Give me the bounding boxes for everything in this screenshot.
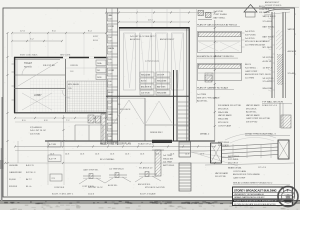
svg-text:1x4 TRIM: 1x4 TRIM [245,78,254,80]
svg-text:W8x24 BM: W8x24 BM [263,88,273,90]
svg-text:5/8 GYP: 5/8 GYP [157,75,165,77]
svg-text:ANCHOR BOL: ANCHOR BOL [138,183,151,186]
svg-text:14'-8: 14'-8 [110,154,114,156]
svg-text:VAPOR BARR: VAPOR BARR [246,104,260,107]
svg-text:14'-8: 14'-8 [125,154,129,156]
svg-text:ANCHOR BOLT MTL DECK: ANCHOR BOLT MTL DECK [245,73,271,76]
svg-text:BATT INSUL: BATT INSUL [163,164,175,167]
svg-text:R-19 INSUL: R-19 INSUL [245,67,257,69]
svg-text:LOBBY: LOBBY [34,95,42,97]
svg-text:1/2 EXP: 1/2 EXP [263,41,271,43]
svg-text:B-4 TYP: B-4 TYP [49,158,57,160]
svg-text:MTL DECK 2x6 STUD: MTL DECK 2x6 STUD [145,187,165,189]
svg-text:HALL: HALL [108,113,114,116]
svg-text:ALUM SILL: ALUM SILL [197,100,208,103]
svg-text:ANCHOR: ANCHOR [288,50,297,53]
svg-text:W8x24 BM: W8x24 BM [218,119,228,121]
svg-text:201: 201 [97,70,100,72]
svg-text:1/2"=1'-0: 1/2"=1'-0 [258,167,267,169]
svg-text:SEE AD JOINING SHEET FOR ADD N: SEE AD JOINING SHEET FOR ADD NO 2 [233,182,273,185]
svg-text:VAPOR BARR: VAPOR BARR [215,172,229,175]
svg-text:2x10 JST 16 OC: 2x10 JST 16 OC [88,187,103,189]
svg-text:ANCHOR BOLT FIN GRADE: ANCHOR BOLT FIN GRADE [233,173,260,176]
svg-text:A-7 SIM: A-7 SIM [49,143,56,146]
svg-text:2 X: 2 X [52,178,56,180]
svg-text:CANT STRIP MTL: CANT STRIP MTL [83,169,98,172]
svg-text:ALUM SILL: ALUM SILL [108,184,118,187]
svg-text:ALUM SILL: ALUM SILL [246,111,257,114]
svg-text:BATT INSUL: BATT INSUL [214,16,227,19]
svg-text:10x8: 10x8 [108,19,112,21]
svg-text:2x6 STUD: 2x6 STUD [245,38,255,40]
svg-text:2x6 STUD: 2x6 STUD [141,93,150,95]
svg-text:A B C D: A B C D [26,164,34,167]
svg-text:W8x24 BM: W8x24 BM [218,112,228,114]
svg-text:BLK'G: BLK'G [141,81,147,83]
svg-text:5/8 GYP BD: 5/8 GYP BD [263,78,274,80]
svg-text:5/8 GYP BD: 5/8 GYP BD [263,57,274,59]
svg-text:10x8: 10x8 [108,41,112,43]
svg-text:MTL DECK: MTL DECK [263,47,274,49]
svg-text:SCALE 3/4"=1'-0: SCALE 3/4"=1'-0 [262,104,278,107]
svg-text:RM 104: RM 104 [24,67,32,69]
svg-text:GRAND RAPIDS MICH JOB 412: GRAND RAPIDS MICH JOB 412 [234,196,265,199]
svg-text:10x8: 10x8 [108,52,112,54]
svg-text:LEGEND: LEGEND [9,165,18,167]
svg-text:VAPOR BARR: VAPOR BARR [246,114,260,117]
svg-text:CORR: CORR [108,70,114,72]
svg-text:12'-6: 12'-6 [20,31,26,33]
svg-text:BATT INS: BATT INS [157,86,166,89]
svg-text:B.P. N.I.C.: B.P. N.I.C. [26,172,36,174]
svg-text:1x4 TRIM: 1x4 TRIM [197,94,206,96]
svg-text:30,000: 30,000 [9,179,16,181]
svg-text:STL ANGL: STL ANGL [263,80,273,83]
svg-text:VAPOR BARR: VAPOR BARR [263,15,277,18]
svg-text:4: 4 [295,54,296,56]
svg-text:NEW CURB: NEW CURB [60,55,71,57]
svg-text:2x10 JST 16 OC SEE DET 7: 2x10 JST 16 OC SEE DET 7 [130,36,156,38]
svg-text:MTL DECK: MTL DECK [246,108,257,110]
svg-text:DETAIL 2: DETAIL 2 [200,133,210,136]
svg-text:DRESS RM 2: DRESS RM 2 [150,132,164,134]
svg-text:202B: 202B [97,77,102,79]
svg-text:VAPOR: VAPOR [288,28,295,31]
svg-text:MEZZANINE FLOOR PLAN: MEZZANINE FLOOR PLAN [100,142,131,145]
svg-text:14'-8: 14'-8 [80,154,84,156]
svg-text:10x8: 10x8 [108,74,112,76]
svg-text:PLAN OF OAK DOOR BUCK AT RM 10: PLAN OF OAK DOOR BUCK AT RM 104 [197,24,238,27]
svg-text:BEAM DETAIL: BEAM DETAIL [228,167,242,170]
svg-text:B.U.H. / T.M.S. DET 1: B.U.H. / T.M.S. DET 1 [52,194,74,196]
svg-text:10x8: 10x8 [108,85,112,87]
svg-text:1x4 TRIM: 1x4 TRIM [163,162,172,164]
svg-text:MECH: MECH [108,48,114,50]
svg-text:CONT FLASH: CONT FLASH [233,170,247,173]
svg-text:CONC BLK: CONC BLK [54,187,65,189]
svg-text:TOILET: TOILET [24,63,33,65]
svg-text:BLDG: BLDG [93,40,99,42]
svg-text:3/4 PLYWD: 3/4 PLYWD [245,34,256,36]
svg-text:VAPOR BARR: VAPOR BARR [218,114,232,117]
svg-text:STL ANGL: STL ANGL [263,20,273,23]
svg-text:W8x24 BM: W8x24 BM [163,158,173,160]
svg-text:ANCHOR B: ANCHOR B [141,86,152,89]
svg-text:1/2 EXP JT BLK'G: 1/2 EXP JT BLK'G [265,5,282,7]
svg-text:EXIST: EXIST [93,36,99,38]
svg-text:BATT INSUL: BATT INSUL [218,141,230,144]
svg-text:W8x24 BM: W8x24 BM [157,81,167,83]
svg-text:FIN FLR: FIN FLR [9,186,18,188]
svg-text:5/8 GYP BD: 5/8 GYP BD [43,65,55,67]
svg-text:ALT 2: ALT 2 [26,178,32,181]
svg-text:BATT INSUL: BATT INSUL [228,155,240,158]
svg-text:BLK'G: BLK'G [245,64,251,66]
svg-text:MTL DECK: MTL DECK [68,84,80,86]
svg-text:STOR: STOR [108,26,114,28]
svg-text:ALUM SIL: ALUM SIL [263,60,273,63]
svg-text:86'-4 OVERALL: 86'-4 OVERALL [100,158,116,161]
svg-text:MTL DECK: MTL DECK [218,122,229,124]
svg-text:FIN GRADE 5/8 GYP BD: FIN GRADE 5/8 GYP BD [218,104,242,107]
svg-text:W8x24 BM: W8x24 BM [141,75,151,77]
svg-text:4: 4 [295,14,296,16]
svg-text:SEE DET 7 FIN GRADE: SEE DET 7 FIN GRADE [197,96,220,99]
svg-text:CANT STRIP: CANT STRIP [233,176,246,179]
svg-text:14'-8: 14'-8 [50,154,54,156]
svg-text:ELEC: ELEC [108,92,114,94]
svg-text:BATT INSUL: BATT INSUL [263,25,275,28]
svg-text:14'-8: 14'-8 [65,154,69,156]
svg-text:FIN GRADE: FIN GRADE [218,144,230,147]
svg-text:1x4 TRIM: 1x4 TRIM [163,155,172,157]
svg-text:1/2 EXP JT: 1/2 EXP JT [263,68,274,70]
svg-text:2x6 STUD: 2x6 STUD [30,133,41,135]
svg-text:R-19 INSUL: R-19 INSUL [228,159,240,161]
svg-text:DR TMS CH DJH DATE 10-4-66: DR TMS CH DJH DATE 10-4-66 SCALE AS NOTE… [234,203,276,206]
svg-text:BATT INSUL: BATT INSUL [263,36,275,39]
svg-text:CANT STRIP 5/8 GYP BD: CANT STRIP 5/8 GYP BD [246,117,271,120]
svg-text:2x6 STUD: 2x6 STUD [245,31,255,33]
svg-text:PRAIRIE FORGE ARCHITECTS ENGIN: PRAIRIE FORGE ARCHITECTS ENGINEERS DET M… [234,200,283,203]
svg-text:W8x24 BM: W8x24 BM [157,93,167,95]
svg-text:MTL DECK: MTL DECK [228,162,239,164]
svg-text:STL ANGLE 1/2: STL ANGLE 1/2 [139,167,152,170]
svg-text:1x4 TRIM W8x24: 1x4 TRIM W8x24 [109,169,124,171]
svg-text:10.0.5: 10.0.5 [88,194,95,196]
svg-text:JAN: JAN [108,14,112,17]
svg-text:200A: 200A [97,62,102,65]
svg-text:EL 4+: EL 4+ [26,186,32,188]
svg-text:STL ANGLE: STL ANGLE [30,126,42,129]
svg-text:14'-8: 14'-8 [140,154,144,156]
svg-text:STOREY BROADCAST BUILDING: STOREY BROADCAST BUILDING [234,188,277,192]
svg-text:CONT FLASH: CONT FLASH [218,124,232,127]
svg-text:2x10 JST 16 OC: 2x10 JST 16 OC [30,130,47,132]
svg-text:ELEVATION OF CABINET IN RM 110: ELEVATION OF CABINET IN RM 110 [197,55,234,58]
svg-text:UNIVERSITY OF MICHIGAN 66: UNIVERSITY OF MICHIGAN 66 [234,193,265,196]
svg-text:5/8 GYP BD: 5/8 GYP BD [246,122,258,124]
svg-text:14'-8: 14'-8 [185,154,189,156]
svg-text:B.U.P. 4 SCALE: B.U.P. 4 SCALE [140,193,156,196]
svg-text:PLAN OF CABINET NO SCALE: PLAN OF CABINET NO SCALE [197,86,229,89]
svg-text:4: 4 [295,34,296,36]
svg-text:5/8 GYP BD: 5/8 GYP BD [215,176,226,178]
svg-text:OFFICE: OFFICE [70,65,79,67]
svg-text:24'-0: 24'-0 [148,20,154,22]
svg-text:CASEWORK: CASEWORK [9,171,22,174]
svg-text:SCALE 1/8"=1'-0: SCALE 1/8"=1'-0 [138,142,154,145]
svg-text:10x8: 10x8 [108,30,112,32]
svg-text:2x6 STUD: 2x6 STUD [214,11,224,13]
svg-text:ANCHOR BOLT: ANCHOR BOLT [265,1,280,4]
svg-text:CANT STRIP: CANT STRIP [245,70,258,73]
svg-text:MTL DECK: MTL DECK [218,108,229,110]
svg-text:CONT FLASH: CONT FLASH [214,13,228,16]
svg-text:10x8: 10x8 [108,63,112,65]
svg-text:ALUM SILL: ALUM SILL [130,38,141,41]
svg-text:ANCHOR BOLT: ANCHOR BOLT [160,38,175,41]
svg-text:14'-8: 14'-8 [95,154,99,156]
svg-text:4: 4 [295,74,296,76]
svg-text:EXIST CONC WALK: EXIST CONC WALK [20,54,38,57]
svg-text:GYMNASIUM: GYMNASIUM [145,60,159,63]
